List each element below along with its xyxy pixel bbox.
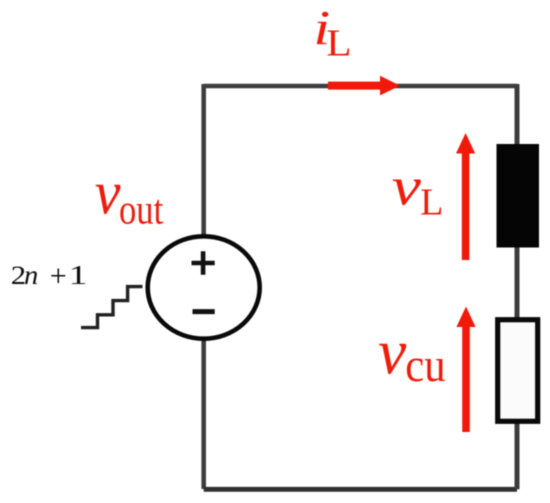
inductor L (black filled rectangle) [497,144,540,248]
wire top horizontal [204,84,517,89]
voltage arrow vL (up) [456,133,475,260]
voltage source U1 circle [148,236,260,338]
wire bottom horizontal [204,487,517,492]
plus sign inside source [192,251,215,274]
svg-text:v: v [392,157,421,217]
voltage arrow vcu (up) [456,307,475,433]
svg-text:out: out [119,187,163,233]
svg-text:+: + [50,259,67,293]
current arrow iL on top wire [328,76,400,96]
svg-text:L: L [326,22,351,64]
svg-text:L: L [420,181,443,223]
label v_cu (red) [378,316,445,392]
svg-text:v: v [95,159,121,229]
resistor R_cu (white rectangle) [498,320,538,422]
label 2n + 1 [11,259,87,293]
label v_out (red) [95,159,164,234]
svg-text:n: n [24,260,38,291]
wire left vertical upper [201,84,206,236]
minus sign inside source [193,309,215,314]
svg-text:v: v [378,316,407,388]
wire right vertical [515,84,520,489]
label i_L (red) [313,1,351,65]
label v_L (red) [392,157,444,224]
wire left vertical lower [201,340,206,489]
svg-text:1: 1 [69,261,88,291]
staircase step-waveform symbol [81,287,143,328]
svg-text:cu: cu [405,339,445,392]
